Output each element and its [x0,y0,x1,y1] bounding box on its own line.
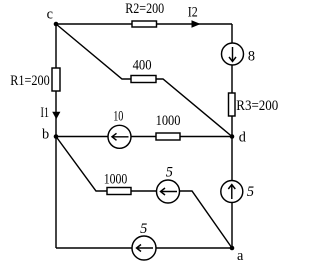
svg-text:I1: I1 [41,105,50,121]
current source 5 bottom [132,236,156,260]
resistor 1000 upper [156,133,180,140]
svg-text:1000: 1000 [156,113,181,129]
wire R2 to top-right corner [157,23,233,25]
resistor R2 [132,21,157,27]
wire R3 to node d [231,116,233,137]
current arrow I1 [52,112,60,119]
wire source 5 right to node a [231,203,233,249]
resistor R1 [52,68,60,91]
wire node b to source 10 [56,136,108,138]
svg-text:R2=200: R2=200 [125,1,164,17]
resistor R3 [229,93,236,116]
svg-text:8: 8 [248,49,255,65]
svg-text:5: 5 [140,221,147,237]
current source 10 [108,125,131,148]
wire source 5 mid to node a diagonal [180,191,233,248]
svg-text:R3=200: R3=200 [236,98,278,114]
wire bottom-left corner to source 5 bottom [56,247,132,249]
wire source 8 to R3 [231,65,233,93]
wire top-right corner down to source 8 [231,24,233,44]
svg-text:5: 5 [166,165,173,181]
current source 5 right [221,181,243,203]
wire node b down left side [55,137,57,249]
wire R1 to node b [55,91,57,137]
wire source 5 bottom to node a [156,247,232,249]
node c [54,22,59,27]
svg-text:a: a [237,248,244,264]
svg-text:b: b [42,127,49,143]
node a [230,246,235,251]
svg-text:R1=200: R1=200 [10,73,50,89]
svg-text:400: 400 [133,58,152,74]
svg-text:I2: I2 [188,5,198,21]
resistor 400 [131,76,156,83]
wire resistor 1000 lower to source 5 mid [131,190,157,192]
node d [230,134,235,139]
wire diagonal node b to resistor 1000 lower [56,137,107,192]
wire resistor 400 to node d diagonal [156,79,232,137]
svg-text:1000: 1000 [104,171,128,187]
current source 8 [222,43,244,65]
svg-text:c: c [47,7,53,23]
wire c to R2 [56,23,132,25]
svg-text:5: 5 [247,184,254,200]
svg-text:d: d [239,130,246,146]
wire node d down to source 5 right [231,137,233,181]
svg-text:10: 10 [113,109,123,125]
wire c down to R1 [55,24,57,68]
resistor 1000 lower [107,188,131,195]
wire diagonal c to resistor 400 [56,24,131,79]
wire resistor 1000 upper to node d [180,136,232,138]
current arrow I2 [192,20,201,27]
node b [54,134,59,139]
wire source 10 to resistor 1000 upper [131,136,156,138]
current source 5 mid [157,180,180,203]
